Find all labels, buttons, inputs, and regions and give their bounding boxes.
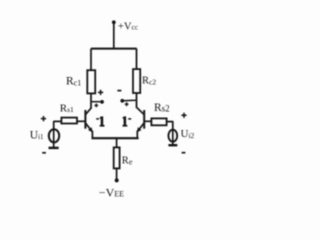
svg-text:Rc2: Rc2 (142, 76, 156, 87)
svg-text:Rs2: Rs2 (154, 102, 170, 114)
svg-text:Re: Re (122, 156, 133, 167)
svg-text:Ui2: Ui2 (181, 128, 195, 140)
svg-text:+Vcc: +Vcc (118, 21, 138, 32)
svg-text:Ui1: Ui1 (30, 129, 44, 141)
svg-text:Rc1: Rc1 (66, 76, 81, 88)
svg-text:Rs1: Rs1 (60, 102, 74, 114)
svg-text:−VEE: −VEE (99, 185, 124, 199)
